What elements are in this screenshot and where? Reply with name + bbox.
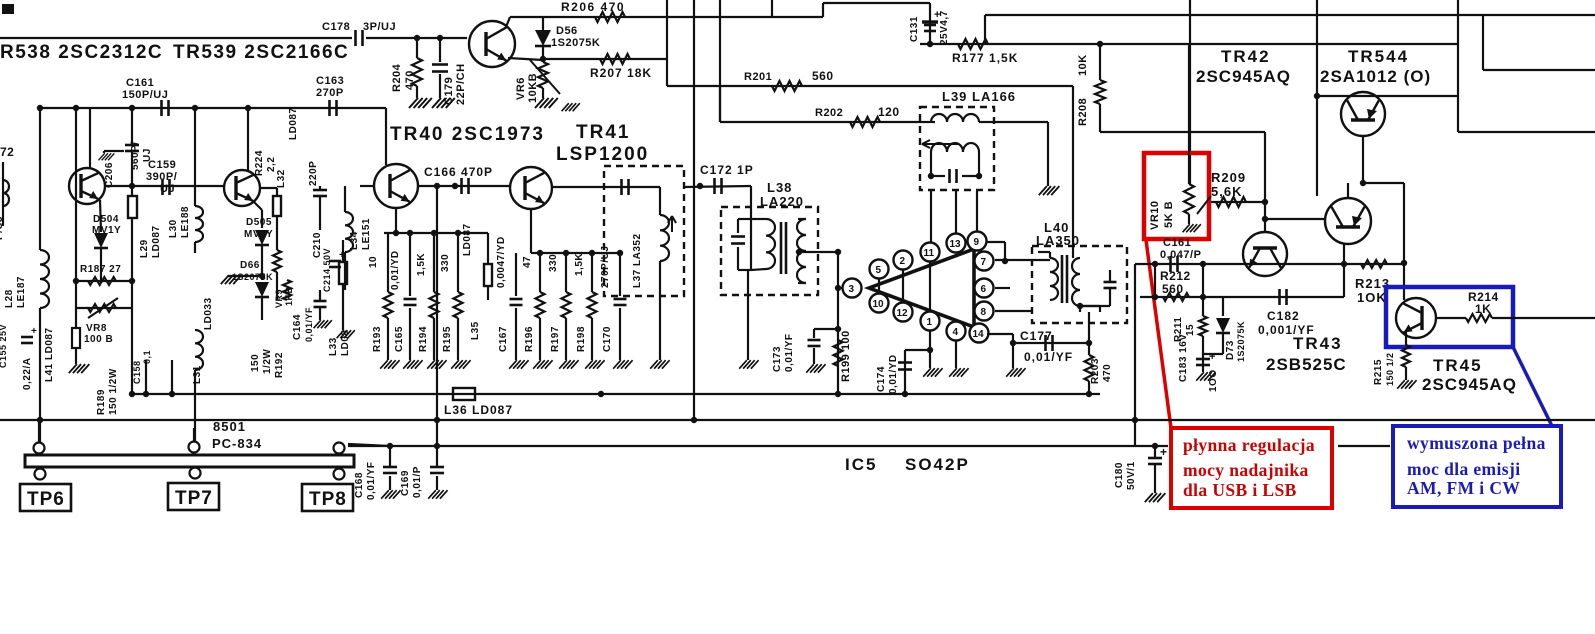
svg-text:C165: C165 bbox=[394, 326, 405, 352]
svg-text:R199 100: R199 100 bbox=[840, 330, 852, 382]
svg-text:4: 4 bbox=[953, 327, 959, 338]
svg-text:100 B: 100 B bbox=[84, 334, 113, 345]
svg-text:1,5K: 1,5K bbox=[416, 253, 427, 276]
svg-text:LD08: LD08 bbox=[340, 330, 351, 356]
svg-text:0,01/YF: 0,01/YF bbox=[1024, 350, 1073, 364]
svg-text:5K B: 5K B bbox=[1163, 201, 1175, 228]
svg-text:R206 470: R206 470 bbox=[561, 0, 625, 14]
svg-text:150 1/2: 150 1/2 bbox=[1385, 352, 1395, 386]
svg-text:R203: R203 bbox=[1090, 358, 1101, 384]
svg-text:R187 27: R187 27 bbox=[80, 264, 121, 275]
svg-text:13: 13 bbox=[950, 239, 962, 250]
svg-text:C161: C161 bbox=[1163, 237, 1191, 249]
svg-text:LD087: LD087 bbox=[151, 225, 162, 258]
svg-text:LD033: LD033 bbox=[203, 297, 214, 330]
svg-text:0,01/YD: 0,01/YD bbox=[888, 354, 899, 394]
svg-text:0,01/YF: 0,01/YF bbox=[366, 461, 377, 500]
svg-text:2SA1012 (O): 2SA1012 (O) bbox=[1320, 67, 1431, 86]
svg-text:LE151: LE151 bbox=[361, 218, 372, 250]
svg-text:dla USB i LSB: dla USB i LSB bbox=[1183, 480, 1297, 500]
svg-text:C166 470P: C166 470P bbox=[424, 165, 493, 179]
svg-text:C174: C174 bbox=[876, 366, 887, 392]
svg-text:0,01/P: 0,01/P bbox=[412, 466, 423, 498]
svg-text:330: 330 bbox=[548, 254, 559, 272]
svg-text:L41 LD087: L41 LD087 bbox=[44, 327, 55, 382]
svg-text:D56: D56 bbox=[556, 25, 578, 37]
svg-text:LE188: LE188 bbox=[180, 206, 191, 238]
svg-text:D504: D504 bbox=[93, 214, 119, 225]
svg-text:C161: C161 bbox=[126, 77, 154, 89]
svg-text:10K: 10K bbox=[1077, 54, 1089, 76]
svg-text:C158: C158 bbox=[132, 360, 142, 384]
svg-text:1: 1 bbox=[927, 317, 933, 328]
svg-text:50V/1: 50V/1 bbox=[1126, 461, 1137, 490]
svg-text:C164: C164 bbox=[292, 314, 303, 340]
svg-text:C182: C182 bbox=[1267, 309, 1300, 323]
svg-text:R195: R195 bbox=[442, 326, 453, 352]
svg-text:+: + bbox=[1209, 351, 1216, 363]
svg-text:TR41: TR41 bbox=[576, 122, 630, 143]
svg-text:R177 1,5K: R177 1,5K bbox=[952, 51, 1018, 65]
svg-text:2: 2 bbox=[900, 256, 906, 267]
svg-text:1OO: 1OO bbox=[1208, 369, 1219, 392]
svg-text:270P: 270P bbox=[316, 87, 344, 99]
svg-text:0,0047/YD: 0,0047/YD bbox=[496, 236, 507, 288]
svg-text:TR45: TR45 bbox=[1433, 356, 1483, 375]
svg-text:L35: L35 bbox=[470, 321, 481, 340]
svg-text:8501: 8501 bbox=[213, 419, 246, 434]
svg-text:1K: 1K bbox=[1475, 302, 1491, 316]
svg-text:560: 560 bbox=[1162, 282, 1184, 296]
svg-text:C169: C169 bbox=[400, 470, 411, 496]
svg-text:C167: C167 bbox=[498, 326, 509, 352]
svg-text:R193: R193 bbox=[372, 326, 383, 352]
svg-text:TR539 2SC2166C: TR539 2SC2166C bbox=[173, 42, 349, 63]
svg-text:10: 10 bbox=[368, 256, 379, 268]
svg-text:C172 1P: C172 1P bbox=[700, 163, 754, 177]
svg-text:P/UJ: P/UJ bbox=[0, 216, 5, 240]
svg-text:2SC945AQ: 2SC945AQ bbox=[1422, 375, 1517, 394]
svg-text:0,22/A: 0,22/A bbox=[22, 358, 33, 390]
svg-text:R538 2SC2312C: R538 2SC2312C bbox=[0, 42, 163, 63]
svg-text:TP7: TP7 bbox=[175, 488, 213, 509]
svg-text:5: 5 bbox=[876, 265, 882, 276]
svg-text:TP6: TP6 bbox=[27, 489, 65, 510]
svg-text:C155 25V: C155 25V bbox=[0, 324, 8, 368]
svg-text:0,01/YF: 0,01/YF bbox=[304, 307, 314, 342]
svg-text:10KB: 10KB bbox=[527, 73, 539, 103]
svg-text:SO42P: SO42P bbox=[905, 455, 970, 474]
svg-text:L28: L28 bbox=[4, 289, 15, 308]
svg-text:TR43: TR43 bbox=[1293, 334, 1343, 353]
svg-text:L36 LD087: L36 LD087 bbox=[444, 403, 513, 417]
svg-text:TP8: TP8 bbox=[309, 489, 347, 510]
svg-text:C179: C179 bbox=[443, 77, 455, 105]
svg-text:1S2075K: 1S2075K bbox=[232, 272, 273, 282]
svg-text:UJ: UJ bbox=[142, 148, 153, 162]
svg-text:IC5: IC5 bbox=[845, 455, 877, 474]
svg-text:+: + bbox=[31, 326, 37, 337]
svg-text:0,01/YF: 0,01/YF bbox=[784, 333, 795, 372]
svg-text:wymuszona pełna: wymuszona pełna bbox=[1407, 433, 1546, 453]
svg-text:R202: R202 bbox=[815, 107, 843, 119]
svg-text:3: 3 bbox=[849, 284, 855, 295]
svg-text:D505: D505 bbox=[246, 217, 272, 228]
svg-text:6: 6 bbox=[981, 284, 987, 295]
svg-text:VR6: VR6 bbox=[515, 77, 527, 100]
svg-text:C180: C180 bbox=[1114, 462, 1125, 488]
svg-text:150: 150 bbox=[250, 354, 261, 372]
svg-text:LSP1200: LSP1200 bbox=[556, 144, 649, 165]
svg-text:R197: R197 bbox=[550, 326, 561, 352]
svg-text:2SC945AQ: 2SC945AQ bbox=[1196, 67, 1291, 86]
svg-text:VR8: VR8 bbox=[86, 323, 107, 334]
svg-text:470: 470 bbox=[404, 70, 416, 90]
svg-text:płynna regulacja: płynna regulacja bbox=[1183, 435, 1315, 455]
svg-text:LA220: LA220 bbox=[760, 194, 804, 209]
svg-text:R189: R189 bbox=[96, 389, 107, 415]
svg-text:LD087: LD087 bbox=[462, 223, 473, 256]
svg-text:220P: 220P bbox=[308, 161, 319, 186]
svg-text:120: 120 bbox=[878, 105, 900, 119]
svg-text:C168: C168 bbox=[354, 472, 365, 498]
svg-text:22P/CH: 22P/CH bbox=[455, 63, 467, 105]
svg-text:1OK: 1OK bbox=[1357, 290, 1387, 305]
svg-text:L38: L38 bbox=[767, 180, 792, 195]
svg-text:D73: D73 bbox=[1225, 340, 1236, 360]
svg-text:+: + bbox=[1160, 445, 1168, 459]
svg-text:150P/UJ: 150P/UJ bbox=[122, 89, 168, 101]
svg-text:560: 560 bbox=[812, 69, 834, 83]
svg-text:14: 14 bbox=[973, 329, 985, 340]
svg-text:330: 330 bbox=[440, 254, 451, 272]
svg-text:VR10: VR10 bbox=[1149, 200, 1161, 230]
svg-text:AM, FM i CW: AM, FM i CW bbox=[1407, 478, 1520, 498]
svg-text:TR544: TR544 bbox=[1348, 47, 1409, 66]
svg-text:R207 18K: R207 18K bbox=[590, 66, 652, 80]
svg-text:C177: C177 bbox=[1020, 329, 1053, 343]
svg-text:150 1/2W: 150 1/2W bbox=[108, 368, 119, 415]
svg-text:+: + bbox=[934, 9, 941, 21]
svg-text:C173: C173 bbox=[772, 346, 783, 372]
svg-text:L33: L33 bbox=[328, 337, 339, 356]
svg-text:C214 50V: C214 50V bbox=[322, 248, 332, 292]
svg-text:270P/UJ: 270P/UJ bbox=[600, 246, 611, 288]
svg-text:TR40 2SC1973: TR40 2SC1973 bbox=[390, 124, 545, 145]
svg-text:R192: R192 bbox=[274, 352, 285, 378]
svg-text:C178: C178 bbox=[322, 21, 350, 33]
svg-text:C170: C170 bbox=[602, 326, 613, 352]
svg-text:470: 470 bbox=[1102, 364, 1113, 382]
svg-text:C131: C131 bbox=[909, 16, 920, 42]
svg-text:R194: R194 bbox=[418, 326, 429, 352]
svg-text:L34: L34 bbox=[349, 231, 360, 250]
svg-text:0,01/YD: 0,01/YD bbox=[390, 250, 401, 290]
svg-text:LE187: LE187 bbox=[16, 276, 27, 308]
svg-text:L31: L31 bbox=[192, 365, 203, 384]
svg-text:R204: R204 bbox=[391, 63, 403, 92]
svg-text:L32: L32 bbox=[276, 169, 287, 188]
svg-text:560P/: 560P/ bbox=[130, 141, 141, 170]
svg-text:R224: R224 bbox=[254, 150, 265, 176]
svg-text:0,1: 0,1 bbox=[142, 350, 152, 364]
svg-text:9: 9 bbox=[974, 237, 980, 248]
svg-text:C163: C163 bbox=[316, 75, 344, 87]
svg-text:10: 10 bbox=[873, 299, 885, 310]
svg-text:L37 LA352: L37 LA352 bbox=[632, 233, 643, 288]
svg-text:R208: R208 bbox=[1077, 98, 1089, 126]
svg-text:0,047/P: 0,047/P bbox=[1160, 249, 1201, 261]
svg-text:D66: D66 bbox=[240, 260, 260, 271]
svg-text:8: 8 bbox=[981, 307, 987, 318]
svg-text:1S2075K: 1S2075K bbox=[551, 37, 600, 49]
svg-text:C206: C206 bbox=[104, 162, 115, 188]
svg-text:UJ: UJ bbox=[160, 183, 175, 195]
svg-text:2SB525C: 2SB525C bbox=[1266, 355, 1347, 374]
svg-text:L39 LA166: L39 LA166 bbox=[942, 89, 1016, 104]
svg-text:7: 7 bbox=[981, 257, 987, 268]
svg-text:1,5K: 1,5K bbox=[574, 253, 585, 276]
svg-text:L30: L30 bbox=[168, 219, 179, 238]
svg-text:5,6K: 5,6K bbox=[1211, 184, 1242, 199]
svg-text:LD087: LD087 bbox=[288, 107, 299, 140]
svg-text:390P/: 390P/ bbox=[146, 171, 177, 183]
svg-text:R201: R201 bbox=[744, 71, 772, 83]
svg-text:12: 12 bbox=[897, 308, 909, 319]
svg-text:11: 11 bbox=[924, 248, 935, 259]
svg-text:1/2W: 1/2W bbox=[262, 349, 273, 374]
svg-text:47: 47 bbox=[522, 256, 533, 268]
svg-text:R215: R215 bbox=[1373, 359, 1384, 385]
svg-text:3P/UJ: 3P/UJ bbox=[363, 21, 396, 33]
svg-text:mocy nadajnika: mocy nadajnika bbox=[1183, 460, 1309, 480]
svg-text:R198: R198 bbox=[576, 326, 587, 352]
svg-text:R196: R196 bbox=[524, 326, 535, 352]
svg-text:R209: R209 bbox=[1211, 170, 1246, 185]
svg-text:PC-834: PC-834 bbox=[212, 436, 262, 451]
svg-text:TR42: TR42 bbox=[1221, 47, 1271, 66]
svg-text:C183 16V: C183 16V bbox=[1178, 334, 1189, 382]
svg-text:72: 72 bbox=[0, 145, 14, 159]
svg-text:R212: R212 bbox=[1160, 269, 1191, 283]
svg-text:MV1Y: MV1Y bbox=[92, 225, 121, 236]
svg-text:1S2075K: 1S2075K bbox=[1236, 321, 1246, 362]
svg-text:L29: L29 bbox=[139, 239, 150, 258]
svg-text:moc dla emisji: moc dla emisji bbox=[1407, 459, 1521, 479]
